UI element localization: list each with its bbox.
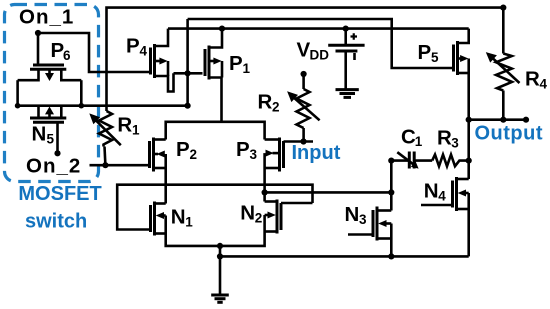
dashed MOSFET switch box [5,5,99,182]
transistor N3 (NMOS) [348,207,391,241]
transistor N1 (NMOS) [151,202,166,236]
svg-text:V: V [297,38,311,61]
svg-text:DD: DD [310,48,330,63]
svg-text:N: N [32,123,47,146]
wire to ground rail [219,246,222,257]
svg-text:P: P [418,41,432,64]
wire N5 gate to On_2 dot [56,122,59,153]
transistor P6 (PMOS, vertical) [18,65,82,81]
node On_1 dot [35,30,41,36]
wire VDD rail [168,27,469,30]
svg-text:4: 4 [540,76,548,91]
transistor P1 (PMOS) [205,29,222,122]
svg-text:N: N [240,202,255,225]
transistor N2 (NMOS, mirrored) [265,200,281,234]
wire P2 drain down to N1 [164,168,167,204]
wire diff pair box top [166,122,265,140]
wire P3 drain down to N2 [263,168,266,202]
svg-text:P: P [229,52,243,75]
svg-text:R: R [437,127,452,150]
transistor N4 (NMOS) [421,177,469,211]
transistor P2 (PMOS) [150,138,166,172]
svg-text:R: R [117,114,132,137]
svg-text:3: 3 [250,147,258,162]
svg-text:On_2: On_2 [26,155,81,178]
resistor R4 (variable) [486,8,520,120]
svg-text:MOSFET: MOSFET [18,183,101,205]
wire N1 diode connection [117,185,312,230]
svg-text:5: 5 [431,50,439,65]
resistor R1 (variable) [89,111,121,165]
transistor P3 (PMOS, mirrored) [265,138,284,172]
wire On_2 net [90,164,150,167]
svg-text:P: P [236,138,250,161]
svg-text:1: 1 [132,123,140,138]
svg-text:P: P [126,34,140,57]
battery VDD [328,26,364,90]
svg-text:Output: Output [475,123,544,145]
wire first stage out to N3 [265,191,392,194]
resistor R3 [432,155,469,167]
svg-text:1: 1 [243,61,251,76]
svg-text:1: 1 [185,215,193,230]
wire bias rail to P5 gate [188,19,454,68]
wire N3 source to ground rail [390,239,393,257]
wire Output line [469,118,526,121]
svg-text:1: 1 [415,134,423,149]
ground symbol [211,256,229,302]
svg-text:P: P [176,138,190,161]
capacitor C1 [391,152,432,169]
wire On_1 to P4 gate [38,33,151,72]
svg-text:6: 6 [63,48,71,63]
wire TG middle node [18,104,188,107]
svg-text:3: 3 [359,212,367,227]
wire P4 drain to P1 gate [174,72,203,75]
svg-text:Input: Input [292,142,341,164]
wire N1 N2 source rail [166,232,265,246]
transmission-gate rails [16,80,19,106]
wire ground rail [220,255,469,258]
svg-text:N: N [345,203,360,226]
ground under battery [336,90,359,98]
svg-text:2: 2 [272,99,280,114]
transistor P4 (PMOS) [151,29,174,92]
svg-text:R: R [258,90,273,113]
svg-text:2: 2 [255,211,263,226]
svg-text:On_1: On_1 [19,6,74,29]
svg-text:3: 3 [451,136,459,151]
wire Input to P3 gate [284,140,314,143]
svg-text:4: 4 [140,43,148,58]
wire C1 node up from N3 drain [390,161,393,211]
svg-text:4: 4 [438,189,446,204]
wire On_1 down to P6 gate [37,33,40,65]
svg-text:N: N [171,206,186,229]
transistor P5 (PMOS) [454,29,469,75]
svg-text:N: N [424,180,439,203]
resistor R2 (variable) [287,71,320,142]
wire bias vertical [186,19,189,106]
svg-text:C: C [401,126,416,149]
svg-text:2: 2 [190,147,198,162]
wire P5 drain / output column [467,73,470,179]
svg-text:5: 5 [47,132,55,147]
wire N2 gate lead [281,202,313,205]
transistor N5 (NMOS, vertical) [30,106,66,123]
svg-text:switch: switch [25,211,87,233]
svg-text:R: R [525,67,540,90]
wire top rail R1-R4 [107,8,504,111]
